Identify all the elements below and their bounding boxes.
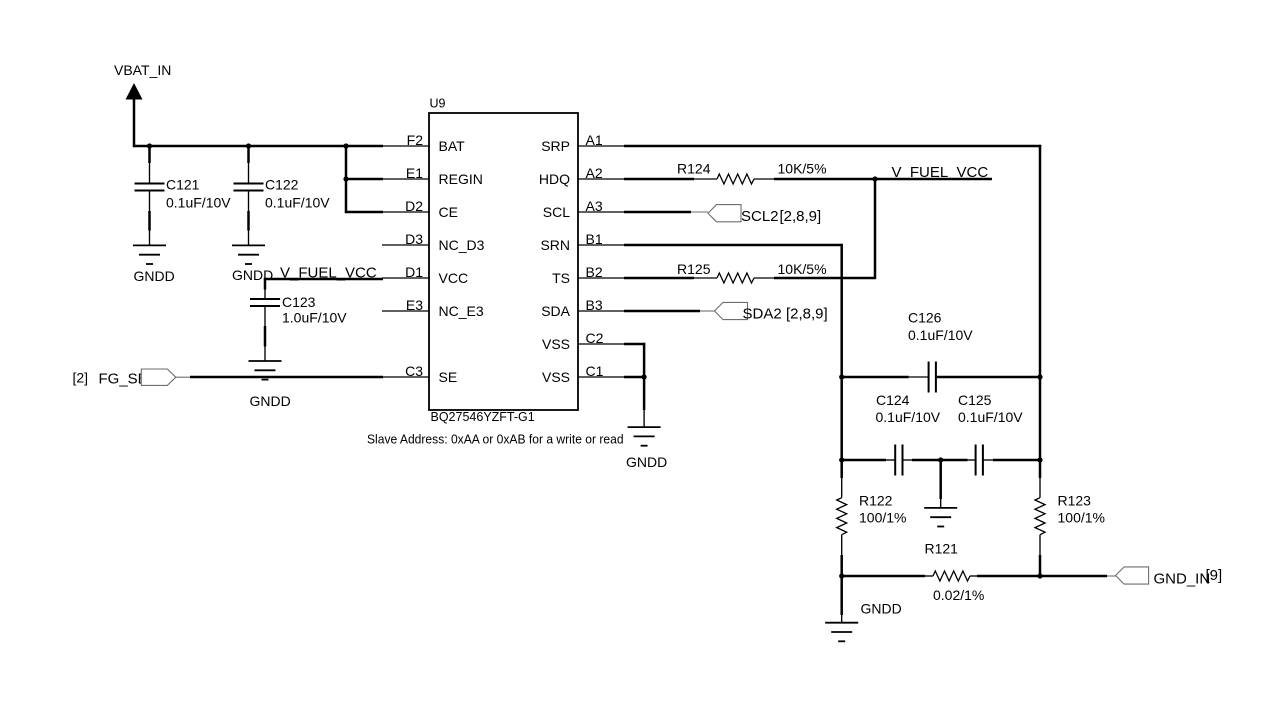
junction SRN x841.7 C124 row <box>839 457 844 462</box>
wire pin B1 SRN <box>624 244 843 247</box>
wire VSS vertical <box>643 343 646 410</box>
svg-text:Slave Address: 0xAA or 0xAB f: Slave Address: 0xAA or 0xAB for a write … <box>367 432 624 446</box>
svg-text:CE: CE <box>439 204 458 220</box>
port flag GND_IN <box>1116 567 1223 588</box>
IC U9 right pins A1 A2 A3 B1 B2 B3 C2 C1 <box>539 132 625 385</box>
svg-text:10K/5%: 10K/5% <box>778 261 827 277</box>
wire pin C1 VSS <box>624 376 645 379</box>
wire FG_SE net to pin C3 SE <box>190 376 383 379</box>
wire BAT net to pin F2 <box>133 145 383 148</box>
ground GNDD under C121 <box>133 230 175 284</box>
net label V_FUEL_VCC left <box>280 265 377 282</box>
IC U9 slave address note <box>367 432 624 446</box>
resistor R121 <box>925 571 984 603</box>
wire branch vertical x875 <box>874 178 877 279</box>
svg-text:NC_E3: NC_E3 <box>439 303 484 319</box>
wire to pin D2 CE <box>345 211 383 214</box>
svg-text:V_FUEL_VCC: V_FUEL_VCC <box>892 164 989 181</box>
svg-text:[2]: [2] <box>73 370 89 386</box>
svg-text:R125: R125 <box>677 261 711 277</box>
svg-text:SCL2: SCL2 <box>741 208 779 225</box>
svg-text:C122: C122 <box>265 177 299 193</box>
op-amp/IC U9 outline <box>429 97 578 411</box>
svg-text:NC_D3: NC_D3 <box>439 237 485 253</box>
junction bottom rail x841.7 <box>839 573 844 578</box>
svg-text:VSS: VSS <box>542 336 570 352</box>
svg-text:0.1uF/10V: 0.1uF/10V <box>876 409 941 425</box>
label R121 <box>925 541 959 557</box>
svg-text:C123: C123 <box>282 294 316 310</box>
svg-text:D1: D1 <box>405 264 423 280</box>
junction V_FUEL_VCC branch <box>872 176 877 181</box>
capacitor C121 <box>135 146 232 212</box>
junction SRP x1040 C124 row <box>1037 457 1042 462</box>
wire pin A3 SCL <box>624 211 708 214</box>
junction SRN x841.7 C126 row <box>839 374 844 379</box>
svg-text:1.0uF/10V: 1.0uF/10V <box>282 310 347 326</box>
svg-text:REGIN: REGIN <box>439 171 483 187</box>
svg-text:GNDD: GNDD <box>134 268 175 284</box>
resistor R123 <box>1035 478 1105 556</box>
svg-text:[2,8,9]: [2,8,9] <box>780 208 822 225</box>
svg-text:C125: C125 <box>958 392 992 408</box>
svg-text:GNDD: GNDD <box>861 601 902 617</box>
ground GNDD under C123 <box>249 346 291 409</box>
wire SRP A1 horizontal <box>624 145 1041 148</box>
svg-text:GNDD: GNDD <box>250 393 291 409</box>
svg-text:SCL: SCL <box>543 204 570 220</box>
wire pin B2 TS to R125 <box>624 277 694 280</box>
wire C123 bottom <box>264 326 267 347</box>
svg-text:BAT: BAT <box>439 138 466 154</box>
junction VSS C1 <box>642 374 647 379</box>
wire C121 bottom <box>148 211 151 231</box>
wire SRP vertical x1040 <box>1039 145 1042 478</box>
svg-text:A2: A2 <box>586 165 603 181</box>
junction node at x346 on BAT net <box>343 143 348 148</box>
wire VBAT_IN vertical <box>133 98 136 147</box>
svg-text:0.1uF/10V: 0.1uF/10V <box>908 327 973 343</box>
svg-text:B2: B2 <box>586 264 603 280</box>
wire to GNDD bottom <box>840 575 843 615</box>
capacitor C126 <box>908 310 973 393</box>
svg-text:C124: C124 <box>876 392 910 408</box>
svg-text:100/1%: 100/1% <box>859 510 906 526</box>
port flag SDA2 <box>715 302 828 322</box>
svg-text:C121: C121 <box>166 177 200 193</box>
junction SRP x1040 C126 row <box>1037 374 1042 379</box>
wire pin B3 SDA <box>624 310 715 313</box>
svg-text:C2: C2 <box>586 330 604 346</box>
svg-text:0.02/1%: 0.02/1% <box>933 587 984 603</box>
wire C126 left <box>842 376 909 379</box>
junction bottom rail x1040 <box>1037 573 1042 578</box>
svg-text:SDA: SDA <box>541 303 570 319</box>
wire V_FUEL_VCC corner down <box>264 278 267 290</box>
svg-text:GNDD: GNDD <box>232 267 273 283</box>
net label V_FUEL_VCC right <box>892 164 989 181</box>
svg-text:0.1uF/10V: 0.1uF/10V <box>265 195 330 211</box>
ground GNDD bottom <box>825 601 902 642</box>
svg-text:A3: A3 <box>586 198 603 214</box>
junction C121 top <box>147 143 152 148</box>
port flag FG_SE <box>73 369 192 388</box>
svg-text:BQ27546YZFT-G1: BQ27546YZFT-G1 <box>431 410 535 424</box>
svg-text:VCC: VCC <box>439 270 469 286</box>
wire TS right segment <box>774 277 875 280</box>
wire C122 bottom <box>247 211 250 231</box>
ground GNDD under VSS <box>626 410 667 470</box>
junction REGIN branch <box>343 176 348 181</box>
junction C122 top <box>246 143 251 148</box>
capacitor C125 <box>940 392 1041 476</box>
svg-text:0.1uF/10V: 0.1uF/10V <box>958 409 1023 425</box>
resistor R125 <box>677 261 827 283</box>
wire to pin E1 REGIN <box>345 178 383 181</box>
svg-text:U9: U9 <box>430 97 446 111</box>
svg-text:C1: C1 <box>586 363 604 379</box>
IC U9 left pins F2 E1 D2 D3 D1 E3 C3 <box>382 132 485 385</box>
wire pin C2 VSS <box>624 343 645 346</box>
svg-text:A1: A1 <box>586 132 603 148</box>
wire mid branch down x940.7 <box>939 459 942 499</box>
svg-text:GND_IN: GND_IN <box>1154 571 1211 588</box>
svg-text:F2: F2 <box>407 132 424 148</box>
ground under C124 C125 junction <box>924 499 957 527</box>
capacitor C122 <box>234 146 331 212</box>
wire branch vertical x346 <box>345 145 348 213</box>
power symbol VBAT_IN <box>114 62 171 100</box>
svg-text:SE: SE <box>439 369 458 385</box>
svg-text:B1: B1 <box>586 231 603 247</box>
svg-text:R124: R124 <box>677 161 711 177</box>
svg-text:D3: D3 <box>405 231 423 247</box>
wire HDQ A2 to R124 <box>624 178 694 181</box>
svg-text:HDQ: HDQ <box>539 171 570 187</box>
svg-text:SDA2: SDA2 <box>743 306 782 323</box>
capacitor C123 <box>250 289 347 327</box>
svg-text:C3: C3 <box>405 363 423 379</box>
svg-text:VSS: VSS <box>542 369 570 385</box>
capacitor C124 <box>842 392 942 476</box>
wire bottom rail left <box>841 575 925 578</box>
resistor R122 <box>837 478 907 556</box>
resistor R124 <box>677 161 827 185</box>
svg-text:GNDD: GNDD <box>626 454 667 470</box>
ground GNDD under C122 <box>232 230 273 283</box>
wire R124 to V_FUEL_VCC <box>774 178 992 181</box>
svg-text:TS: TS <box>552 270 570 286</box>
wire bottom rail right <box>977 575 1116 578</box>
svg-text:0.1uF/10V: 0.1uF/10V <box>166 195 231 211</box>
svg-text:FG_SE: FG_SE <box>99 371 148 388</box>
svg-text:SRN: SRN <box>540 237 570 253</box>
wire R123 bottom <box>1039 555 1042 577</box>
wire R122 bottom <box>840 555 843 577</box>
wire V_FUEL_VCC to pin D1 VCC <box>264 278 383 281</box>
svg-text:VBAT_IN: VBAT_IN <box>114 62 171 78</box>
svg-text:R123: R123 <box>1058 493 1092 509</box>
svg-text:R121: R121 <box>925 541 959 557</box>
svg-text:B3: B3 <box>586 297 603 313</box>
svg-text:[9]: [9] <box>1206 567 1223 584</box>
port flag SCL2 <box>708 205 821 225</box>
svg-text:E1: E1 <box>406 165 423 181</box>
svg-text:D2: D2 <box>405 198 423 214</box>
svg-text:E3: E3 <box>406 297 423 313</box>
svg-text:100/1%: 100/1% <box>1058 510 1105 526</box>
wire SRN vertical x841.7 <box>840 244 843 478</box>
svg-text:10K/5%: 10K/5% <box>778 161 827 177</box>
IC U9 part number <box>431 410 535 424</box>
svg-text:R122: R122 <box>859 493 893 509</box>
junction mid x940.7 C124 row <box>938 457 943 462</box>
svg-text:SRP: SRP <box>541 138 570 154</box>
svg-text:[2,8,9]: [2,8,9] <box>786 306 828 323</box>
wire C126 right <box>936 376 1041 379</box>
svg-text:C126: C126 <box>908 310 942 326</box>
